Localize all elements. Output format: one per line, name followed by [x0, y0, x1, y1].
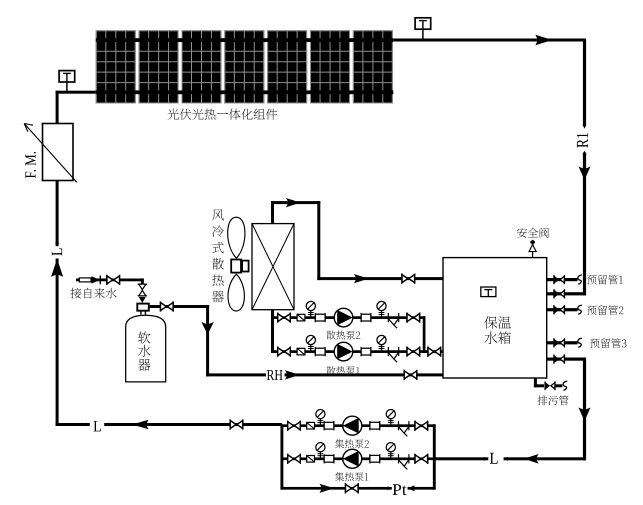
wire: bottom main line left of L	[56, 423, 90, 426]
strainer (branch 散热泵2)	[388, 313, 398, 328]
fan blade upper	[228, 217, 245, 258]
gate valve (tank port y=293.8)	[554, 289, 564, 298]
gate valve (branch 散热泵1 inlet)	[278, 347, 291, 357]
gate valve (drain)	[545, 381, 555, 390]
softener tee fitting	[137, 304, 149, 311]
label 排污管	[538, 396, 569, 406]
gate valve vertical (softener feed)	[138, 284, 147, 296]
gate valve (tap inlet)	[107, 275, 120, 285]
label 接自来水	[71, 288, 117, 299]
pipe: drain elbow	[534, 378, 537, 387]
gate valve (tank port y=279.6)	[554, 275, 564, 284]
flexible joint (branch 散热泵2)	[297, 314, 305, 321]
label F. M. (rotated)	[25, 152, 35, 178]
pipe: collector branch upper	[282, 424, 434, 427]
pipe: down to tank supply level	[317, 201, 320, 280]
pipe: tap water inlet	[76, 279, 144, 282]
gap wedge right of return L	[504, 457, 508, 461]
pipe: softener tee to junction	[149, 305, 209, 308]
pipe: RH line from junction to tank	[285, 373, 444, 376]
gate valve (tank port y=342.8)	[554, 338, 564, 347]
gap wedge left of L	[85, 423, 89, 427]
flow arrow left (bottom return)	[524, 454, 539, 464]
tap inlet stub	[79, 278, 91, 282]
label L (rotated, left riser)	[52, 248, 62, 255]
pipe: collector group right connector	[433, 424, 436, 490]
union (branch 集热泵2 in)	[370, 421, 380, 430]
flow arrow right (top header)	[535, 35, 552, 45]
label L (bottom main)	[94, 421, 101, 431]
wire: panel bottom header to left riser	[56, 91, 97, 94]
pipe break squiggle (port y=309.7)	[578, 305, 582, 314]
pipe: tank port y=279.6	[547, 278, 578, 281]
flexible joint (branch 集热泵1)	[307, 456, 315, 463]
union (branch 散热泵1 inlet)	[315, 347, 325, 356]
gate valve (branch 集热泵1 left-out)	[288, 454, 301, 464]
pump 集热泵1	[343, 449, 362, 468]
flow arrow down (tank outlet)	[579, 408, 591, 422]
gate valve (branch 散热泵2 outlet)	[407, 313, 420, 323]
wire: left riser upper (to F.M.)	[56, 91, 59, 124]
pipe: tank port y=359.1	[547, 358, 586, 361]
pipe: dissipation branches right connector	[423, 316, 426, 353]
union (branch 散热泵1 outlet)	[361, 347, 371, 356]
union (branch 散热泵2 inlet)	[315, 313, 325, 322]
check valve down (softener feed)	[139, 297, 146, 303]
gate valve (Pt bypass)	[346, 483, 359, 493]
solar PV-thermal array (7 modules)	[96, 30, 393, 103]
label 集热泵2	[335, 439, 369, 448]
gap wedge right of L	[104, 423, 108, 427]
pressure gauge (branch 集热泵2 in)	[386, 410, 395, 426]
flow arrow right (supply to tank)	[354, 274, 369, 283]
pump 散热泵1	[334, 342, 353, 361]
flexible joint (branch 散热泵1)	[297, 348, 305, 355]
gap wedge left of return L	[484, 457, 488, 461]
pipe: Pt bypass left segment	[282, 487, 392, 490]
pipe: bottom return right segment	[504, 457, 586, 460]
label R1 (rotated)	[577, 133, 588, 148]
pipe: tap water drop to softener tee	[141, 278, 144, 284]
wire: left riser L label to bottom corner	[56, 259, 59, 427]
pressure gauge (branch 集热泵2 out)	[316, 410, 325, 426]
pump 散热泵2	[334, 308, 353, 327]
wire: panel top header to corner	[393, 39, 586, 42]
flow arrow right (RH line)	[285, 370, 300, 379]
pressure gauge (branch 散热泵2 outlet)	[377, 301, 386, 317]
storage tank 保温水箱	[443, 258, 547, 378]
pipe: tank port y=309.7	[547, 308, 578, 311]
pipe break squiggle (port y=342.8)	[578, 338, 582, 347]
label 光伏光热一体化组件	[168, 109, 278, 120]
pipe: radiator bottom downcomer	[271, 310, 274, 353]
pipe break squiggle (drain)	[563, 381, 567, 390]
flow meter diagonal arrow	[24, 124, 77, 183]
gap wedge below R1 label	[583, 151, 587, 155]
gate valve (branch 散热泵1 outlet)	[407, 347, 420, 357]
flow arrow down (junction downcomer)	[201, 322, 213, 335]
flow meter F.M. body	[43, 124, 74, 181]
pipe: tank port y=342.8	[547, 341, 578, 344]
pipe: dissipation outlet to tank	[425, 350, 443, 353]
pipe: radiator top outlet	[271, 201, 274, 224]
gate valve (branch 集热泵2 right-in)	[415, 421, 428, 431]
label 预留管1	[587, 275, 623, 285]
check valve (tap inlet)	[92, 276, 101, 283]
gate valve (softener outlet)	[161, 301, 174, 311]
pipe: tank outlet downcomer	[583, 358, 586, 461]
gate valve (tank port y=359.1)	[554, 355, 564, 364]
pressure gauge (branch 集热泵1 out)	[316, 443, 325, 459]
pipe: softener junction downcomer	[206, 305, 209, 376]
pipe: dissipation branch lower	[271, 350, 425, 353]
softener neck flange	[140, 311, 142, 315]
temperature sensor T (top header)	[415, 18, 431, 29]
tank temperature sensor T	[481, 287, 496, 297]
flow arrow left (bottom main)	[132, 420, 149, 430]
pipe: drain stub	[555, 384, 562, 387]
label 保温	[484, 316, 511, 329]
label 软水器 (vertical)	[138, 332, 150, 344]
label 安全阀	[517, 228, 549, 238]
wire: array top interconnect	[96, 38, 394, 42]
wire: R1 riser upper	[583, 39, 586, 127]
air-cooled radiator box	[252, 224, 294, 310]
flow arrow right (radiator out)	[286, 198, 301, 207]
pressure gauge (branch 散热泵1 outlet)	[377, 335, 386, 351]
gap wedge above R1 label	[583, 125, 587, 129]
pressure gauge (branch 散热泵2 inlet)	[306, 301, 315, 317]
fan hub	[231, 260, 241, 273]
pipe: collector branch lower	[282, 457, 434, 460]
wire: R1 riser lower to tank port	[583, 153, 586, 296]
wire: left riser below F.M. to L label	[56, 181, 59, 247]
fan blade lower	[228, 274, 244, 311]
wire: array bottom interconnect	[96, 90, 394, 94]
label 散热泵2	[326, 331, 360, 340]
pipe: Pt bypass right segment	[408, 487, 435, 490]
gate valve (branch 散热泵2 inlet)	[278, 313, 291, 323]
flow arrow down (R1 riser)	[579, 167, 591, 181]
label 水箱	[484, 332, 510, 345]
label 集热泵1	[335, 472, 368, 481]
pipe: bottom return mid segment	[434, 457, 488, 460]
flexible joint (branch 集热泵2)	[307, 422, 315, 429]
gate valve (supply to tank)	[402, 274, 415, 284]
flow arrow right (Pt bypass)	[320, 484, 335, 493]
union (branch 散热泵2 outlet)	[361, 313, 371, 322]
label L (bottom return)	[490, 453, 498, 464]
gate valve (bottom main line)	[230, 419, 243, 429]
label RH	[267, 370, 283, 380]
pipe: collector group left connector	[280, 424, 283, 490]
label 散热泵1	[326, 366, 359, 375]
strainer (branch 集热泵2)	[399, 421, 409, 436]
pressure gauge (branch 集热泵1 in)	[386, 443, 395, 459]
wire: bottom main line to collector group	[104, 423, 282, 426]
strainer (branch 散热泵1)	[388, 347, 398, 362]
pipe: RH stub left of label	[206, 373, 266, 376]
pressure gauge (branch 散热泵1 inlet)	[306, 335, 315, 351]
temperature sensor T (left header)	[59, 71, 75, 82]
union (branch 集热泵2 out)	[324, 421, 334, 430]
union (branch 集热泵1 out)	[324, 454, 334, 463]
pipe break squiggle (port y=279.6)	[578, 275, 582, 284]
pipe: radiator top horizontal	[271, 201, 320, 204]
union (branch 集热泵1 in)	[370, 454, 380, 463]
pipe: dissipation branch upper	[271, 316, 425, 319]
gap wedge above L label	[55, 243, 59, 247]
label 风冷式散热器 (vertical)	[212, 209, 224, 220]
water softener vessel 软水器	[126, 315, 166, 382]
gate valve (branch 集热泵2 left-out)	[288, 421, 301, 431]
gate valve (RH line)	[404, 370, 417, 380]
gate valve (tank port y=309.7)	[554, 305, 564, 314]
label Pt	[393, 484, 407, 495]
strainer (branch 集热泵1)	[399, 454, 409, 469]
gate valve (branch 集热泵1 right-in)	[415, 454, 428, 464]
flow arrow up (left riser)	[51, 259, 63, 277]
pipe: tank port y=293.8	[547, 292, 586, 295]
gate valve (dissipation outlet)	[428, 347, 441, 357]
gap wedge left of Pt	[387, 486, 391, 490]
safety valve symbol	[532, 240, 534, 245]
pump 集热泵2	[343, 416, 362, 435]
label 预留管2	[587, 305, 624, 315]
label 预留管3	[590, 338, 626, 348]
gap wedge right of Pt (arrowhead)	[408, 485, 415, 491]
pipe: supply line into tank	[317, 277, 443, 280]
